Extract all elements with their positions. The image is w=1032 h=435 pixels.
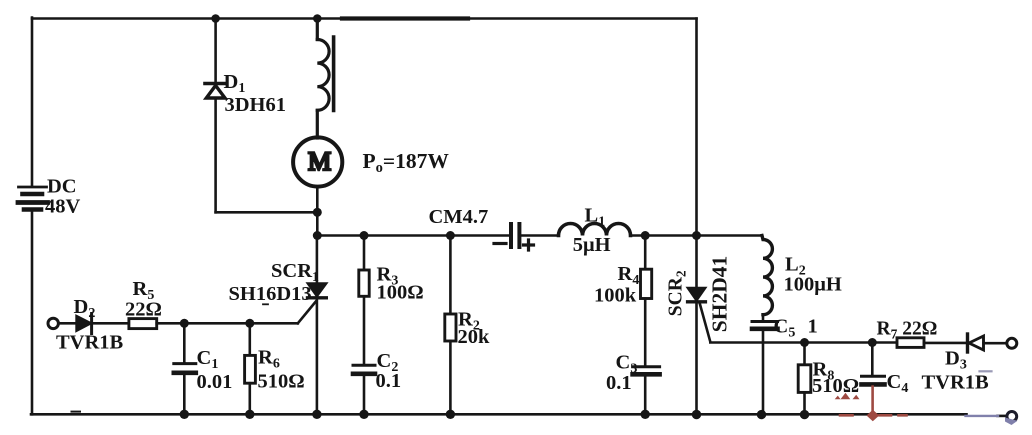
node R4 top [641,231,650,240]
wire mid bus cap to L1 [522,234,559,237]
resistor R7 [897,338,924,348]
wire top bus ink smudge [342,16,468,20]
plus sign of CM4.7 [524,240,534,250]
terminal output lower right [1007,412,1017,422]
svg-text:C1: C1 [197,347,219,372]
node C5 bottom [757,410,766,419]
svg-text:C51: C51 [774,316,818,341]
svg-text:510Ω: 510Ω [258,371,305,393]
node C1 bottom [180,410,189,419]
svg-text:0.01: 0.01 [197,371,233,393]
svg-text:SH16D13: SH16D13 [229,283,312,305]
watermark violet wedge at terminal [1005,418,1018,426]
node motor / mid bus [313,231,322,240]
thyristor SCR2 [695,236,698,415]
svg-text:100k: 100k [594,285,637,307]
node C2 bottom [359,410,368,419]
wire D1 branch vertical upper [214,19,217,83]
capacitor C2 [353,364,375,367]
node R8 bottom [800,410,809,419]
resistor R4 [644,236,647,270]
svg-text:R6: R6 [258,347,280,372]
svg-text:48V: 48V [45,196,81,218]
node C4 top [868,338,877,347]
svg-text:SCR1: SCR1 [271,260,319,285]
wire top bus [32,17,697,20]
watermark red dot on bus [867,410,880,421]
resistor R6 [249,323,252,355]
node R2 bottom [446,410,455,419]
wire mid bus to L2 [697,234,763,237]
diode D3 [966,334,969,352]
wire mid bus left segment [317,234,509,237]
svg-text:D1: D1 [224,71,246,96]
capacitor CM4.7 [511,224,519,247]
svg-text:5μH: 5μH [573,234,611,256]
svg-text:100Ω: 100Ω [377,281,424,303]
watermark red triangles [835,393,860,399]
terminal input left [48,318,58,328]
node C3 bottom [641,410,650,419]
node R8 top [800,338,809,347]
svg-text:M: M [308,147,331,176]
capacitor C5 [752,320,778,323]
wire bottom bus [31,413,967,416]
wire left rail lower [31,212,34,415]
thyristor SCR1 [316,236,319,415]
wire SCR2 gate [700,304,711,342]
svg-text:3DH61: 3DH61 [225,94,287,116]
capacitor C3 [633,365,660,368]
svg-text:C4: C4 [887,371,909,396]
wire right rail from top bus [695,19,698,236]
capacitor C4 [871,343,874,376]
svg-text:R7 22Ω: R7 22Ω [877,319,938,342]
noise speck mid [263,303,268,305]
noise speck left [72,411,81,413]
svg-text:CM4.7: CM4.7 [429,206,489,228]
svg-text:DC: DC [47,176,77,198]
battery B1 DC 48V [18,187,48,210]
watermark blue segment [966,415,999,417]
wire L2 to C5 [762,315,765,321]
watermark red dashes [840,414,907,417]
svg-text:0.1: 0.1 [376,370,402,392]
minus sign of CM4.7 [494,242,506,245]
svg-text:0.1: 0.1 [606,372,632,394]
terminal output upper right [1007,338,1017,348]
node SCR1 bottom [312,410,321,419]
motor M1 [293,137,342,186]
svg-text:D3: D3 [945,348,967,373]
svg-text:TVR1B: TVR1B [922,372,990,394]
resistor R2 [449,236,452,315]
svg-text:100μH: 100μH [784,274,842,296]
node R2 top [446,231,455,240]
svg-text:D2: D2 [74,296,96,321]
wire D1 branch vertical lower [214,98,217,212]
node top bus / field coil [313,14,322,23]
svg-text:SCR2: SCR2 [666,270,689,316]
wire mid bus L1 to right [631,234,697,237]
inductor L1 [559,224,631,236]
node R6 top [245,319,254,328]
svg-text:SH2D41: SH2D41 [707,256,731,332]
svg-text:L1: L1 [585,204,606,229]
svg-text:Po=187W: Po=187W [363,149,450,176]
wire SCR2 gate line [710,341,897,344]
svg-text:TVR1B: TVR1B [56,332,124,354]
wire D1 to motor node [216,211,318,214]
node R6 bottom [245,410,254,419]
wire D2 to R5 [93,322,129,325]
resistor R5 [129,319,157,329]
node SCR2 top [692,231,701,240]
svg-text:22Ω: 22Ω [125,299,162,321]
node top bus / D1 [211,14,220,23]
wire SCR1 gate [298,302,316,324]
field winding coil of motor [317,18,333,139]
node C1 top [180,319,189,328]
resistor R8 [803,343,806,365]
wire D3 to terminal [984,342,1007,345]
capacitor C1 [183,323,186,362]
wire R5 to SCR1 gate [157,322,298,325]
wire motor to mid bus [316,186,319,235]
node D1-motor junction [313,208,322,217]
diode D2 [77,316,91,330]
node SCR2 bottom [692,410,701,419]
wire R7 to D3 [924,342,967,345]
svg-text:20k: 20k [458,326,491,348]
wire terminal to D2 [59,322,77,325]
watermark blue tick [980,370,992,372]
diode D1 [205,84,227,99]
svg-text:510Ω: 510Ω [812,375,859,397]
inductor L2 [762,236,772,315]
node R3 top [360,231,369,240]
resistor R3 [363,236,366,271]
wire left rail upper [31,18,34,187]
